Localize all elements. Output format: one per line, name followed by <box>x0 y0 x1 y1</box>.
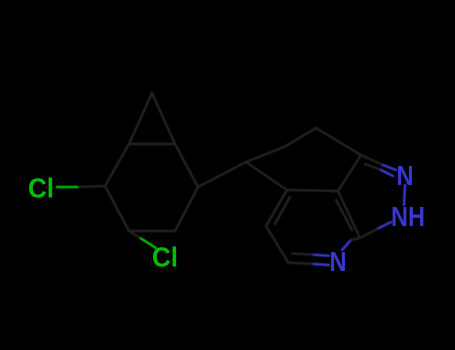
wire: C1'-CH2 bond <box>198 162 246 187</box>
wire: C6=N7 double bond blue halves <box>314 264 329 265</box>
wire: upper ring chain CHa-CHb <box>284 128 316 147</box>
wire: C6=N7 double bond dark halves <box>288 263 314 265</box>
wire: ring edge SE-SW (bottom) <box>129 230 175 233</box>
wire: ring edge SW-W <box>105 186 129 231</box>
wire: CH2-C4 bond <box>246 162 287 190</box>
chlorine Cl2 bond dark half <box>129 231 141 239</box>
wire: C4=C5 double bond <box>266 190 287 226</box>
chlorine Cl2 bond green half <box>141 239 156 249</box>
svg-text:NH: NH <box>391 201 425 232</box>
chlorine Cl1 bond green half <box>57 186 77 189</box>
svg-text:Cl: Cl <box>152 242 178 273</box>
wire: C3=N2 double bond blue halves <box>383 165 396 170</box>
wire: N2-N1 bond all blue <box>404 185 405 205</box>
wire: N7-C7a bond dark half <box>351 238 360 240</box>
wire: upper ring chain CHb-CH2 <box>246 147 284 162</box>
wire: C7a=C3a fusion double bond <box>338 191 360 238</box>
wire: ring edge E-SE <box>175 187 198 231</box>
wire: C5-C6 bond <box>266 226 288 262</box>
svg-text:Cl: Cl <box>28 173 54 204</box>
wire: N7-C7a bond blue half <box>342 240 351 250</box>
wire: ring edge NE-E <box>175 144 198 187</box>
wire: ring edge W-NW <box>105 144 129 186</box>
wire: N1-C7a bond blue half <box>377 222 391 229</box>
wire: ring edge NW-NE (top) <box>129 143 175 146</box>
wire: C3=N2 double bond dark halves <box>361 155 383 165</box>
wire: bridge NW-apex <box>129 93 152 144</box>
svg-text:N: N <box>397 160 414 191</box>
wire: N1-C7a bond dark half <box>360 229 377 238</box>
wire: bridge apex-NE <box>152 93 175 144</box>
chlorine Cl1 bond dark half <box>77 186 105 187</box>
wire: C3a-C4 bond <box>287 190 338 191</box>
wire: C3a-C3 bond <box>338 155 361 191</box>
svg-text:N: N <box>330 246 347 277</box>
wire: upper ring chain C3-CHa <box>316 128 361 155</box>
